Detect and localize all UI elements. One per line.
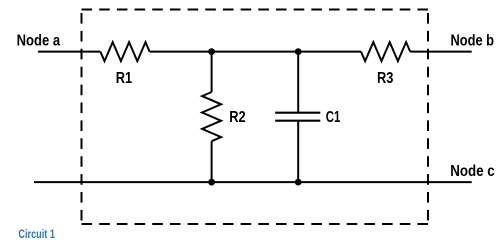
wire: C1 lower lead <box>297 121 299 182</box>
svg-text:R2: R2 <box>229 109 245 126</box>
junction: top of C1 <box>295 48 302 55</box>
svg-text:Node a: Node a <box>17 32 61 49</box>
wire: C1 junction to R3 <box>298 51 361 53</box>
wire: R1 to R2 top junction <box>150 51 212 53</box>
svg-text:Node b: Node b <box>451 33 495 50</box>
resistor R2 <box>202 92 221 141</box>
wire: R3 to node b <box>410 51 472 53</box>
dashed boundary box <box>82 10 429 225</box>
resistor R3 <box>361 42 410 61</box>
wire: R2 lower lead <box>211 141 213 182</box>
wire: node a to R1 <box>38 51 100 53</box>
svg-text:Circuit 1: Circuit 1 <box>18 229 55 241</box>
capacitor C1 <box>275 113 320 121</box>
junction: top of R2 <box>208 48 215 55</box>
svg-text:R3: R3 <box>377 70 393 87</box>
wire: R2 upper lead <box>211 52 213 92</box>
svg-text:R1: R1 <box>116 70 133 87</box>
wire: node c bottom rail <box>34 181 472 183</box>
svg-text:C1: C1 <box>326 109 341 126</box>
junction: bottom of C1 <box>295 179 302 186</box>
wire: C1 upper lead <box>297 52 299 113</box>
wire: R2 junction to C1 junction <box>212 51 299 53</box>
resistor R1 <box>100 42 149 61</box>
junction: bottom of R2 <box>208 179 215 186</box>
svg-text:Node c: Node c <box>450 163 495 180</box>
